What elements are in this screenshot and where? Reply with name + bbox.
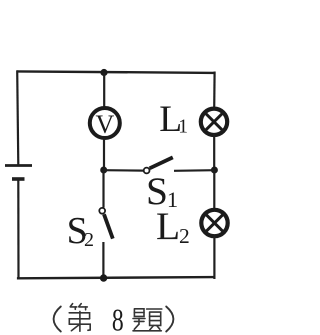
battery [5, 166, 32, 180]
svg-text:2: 2 [84, 229, 94, 251]
caption (第 8 题) [54, 303, 174, 335]
wire bottom [17, 277, 215, 278]
svg-text:V: V [96, 110, 115, 139]
wire middle (voltmeter to node) [103, 139, 105, 173]
wire right (node to L2) [213, 170, 215, 210]
svg-text:8: 8 [112, 303, 124, 335]
svg-text:1: 1 [167, 187, 178, 212]
wire left upper (battery top lead) [17, 70, 18, 165]
caption char TI (topic) [133, 309, 162, 331]
caption close paren [166, 307, 173, 332]
switch S1 [144, 157, 173, 173]
label L2 [156, 204, 190, 248]
label S1 [146, 169, 178, 213]
lamp L2 [201, 210, 227, 236]
node bottom (junction dot) [100, 274, 107, 281]
lamp L1 [201, 109, 227, 135]
svg-text:2: 2 [179, 224, 190, 248]
label L1 [159, 99, 188, 140]
node middle (junction dot) [100, 167, 107, 174]
svg-text:S: S [146, 169, 168, 213]
wire right upper [213, 72, 216, 110]
wire S2 to bottom node [102, 242, 104, 279]
wire top [17, 71, 215, 73]
wire right middle (L1 to node) [213, 134, 215, 172]
svg-text:1: 1 [178, 116, 188, 137]
node top (junction dot) [100, 69, 107, 76]
node right (junction dot) [211, 167, 218, 174]
wire middle lower (node to switch S2) [102, 170, 104, 208]
caption char DI (first/bamboo) [69, 304, 90, 332]
label S2 [67, 210, 94, 252]
caption open paren [54, 307, 61, 332]
switch S2 [99, 208, 113, 239]
wire S1 left segment [104, 169, 144, 172]
wire right lower (L2 to bottom) [213, 236, 215, 280]
wire left lower (battery bottom lead) [17, 180, 19, 279]
voltmeter V [90, 108, 120, 139]
wire S1 right segment [174, 169, 215, 172]
wire middle upper (top node to voltmeter) [103, 73, 105, 109]
